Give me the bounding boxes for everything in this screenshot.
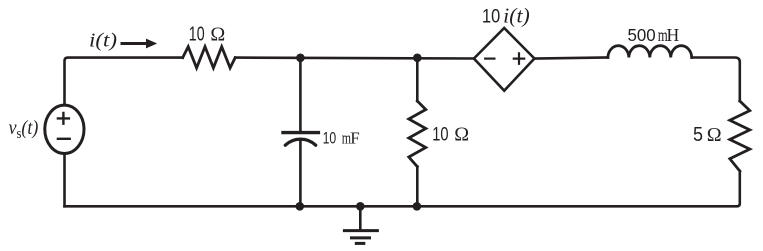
svg-text:H: H	[667, 25, 680, 45]
voltage source VS vs(t) (ellipse)	[45, 105, 84, 153]
wire resistor R2 branch upper stub	[416, 58, 419, 101]
junction node dot top resistor R2	[413, 54, 422, 63]
label R1 value 10 ohm	[189, 22, 225, 45]
svg-text:Ω: Ω	[707, 124, 722, 146]
svg-text:F: F	[350, 129, 359, 148]
label L1 value 500 mH	[628, 24, 680, 45]
ground bar 2	[352, 236, 370, 239]
wire top-right segment (dependent source to inductor)	[534, 58, 608, 59]
svg-text:10: 10	[482, 6, 500, 27]
ground bar 1	[344, 229, 377, 232]
wire resistor R2 branch lower stub	[416, 167, 419, 207]
current arrow head	[146, 39, 157, 49]
wire left-bottom segment (source to bottom rail)	[63, 154, 66, 207]
ground stem	[359, 206, 362, 229]
voltage source minus sign	[58, 138, 70, 140]
svg-text:500: 500	[628, 24, 656, 44]
dependent source plus sign	[514, 53, 524, 63]
resistor R1 10 ohm (top horizontal)	[183, 47, 236, 68]
capacitor C1 bottom curved plate	[285, 139, 315, 145]
wire right-bottom segment	[65, 171, 740, 206]
junction node dot top capacitor	[296, 54, 305, 63]
wire capacitor branch upper	[299, 58, 302, 131]
svg-text:10: 10	[189, 22, 205, 45]
label dependent source gain 10 i(t)	[482, 4, 530, 28]
inductor L1 500 mH	[608, 46, 692, 58]
svg-text:Ω: Ω	[210, 24, 225, 46]
junction node dot ground	[356, 202, 365, 211]
label R2 value 10 ohm	[432, 122, 469, 145]
wire capacitor branch lower	[299, 142, 302, 207]
svg-text:10: 10	[323, 130, 337, 148]
dependent source minus sign	[485, 57, 494, 59]
resistor R3 5 ohm (right vertical)	[730, 101, 750, 171]
current arrow i(t)	[122, 42, 147, 45]
voltage source plus sign	[58, 113, 69, 124]
svg-text:vs(t): vs(t)	[9, 117, 39, 141]
ground bar 3	[356, 242, 364, 245]
label R3 value 5 ohm	[693, 124, 722, 146]
svg-text:i(t): i(t)	[503, 4, 530, 28]
svg-text:Ω: Ω	[454, 124, 469, 146]
resistor R2 10 ohm (middle vertical)	[409, 101, 426, 167]
label C1 value 10 mF	[323, 129, 360, 149]
svg-text:i(t): i(t)	[89, 30, 117, 51]
capacitor C1 top plate	[283, 131, 318, 134]
wire top-left segment	[65, 58, 183, 105]
junction node dot bottom resistor R2	[413, 202, 422, 211]
wire top-middle segment (R1 to dependent source)	[235, 56, 474, 60]
label vs(t)	[9, 117, 39, 141]
dependent source U1 diamond 10 i(t)	[474, 28, 535, 91]
svg-text:10: 10	[432, 122, 448, 145]
wire top-right corner segment	[692, 58, 740, 102]
junction node dot bottom capacitor	[296, 202, 305, 211]
svg-text:5: 5	[693, 124, 703, 146]
